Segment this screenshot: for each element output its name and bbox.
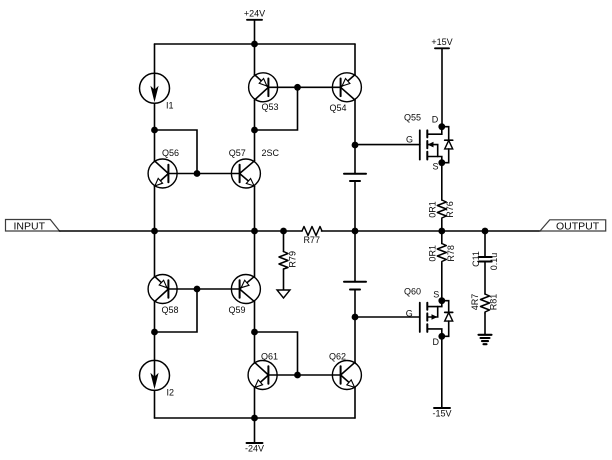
svg-text:INPUT: INPUT	[14, 220, 46, 232]
svg-text:0R1: 0R1	[428, 245, 438, 262]
wire bias loop lower-left	[155, 289, 198, 332]
svg-text:Q57: Q57	[229, 148, 246, 158]
resistor R77	[302, 227, 322, 245]
junction Q60 gate	[352, 314, 359, 321]
mosfet Q55	[404, 113, 453, 172]
svg-text:+15V: +15V	[431, 37, 452, 47]
current source I2	[140, 360, 175, 397]
svg-text:Q60: Q60	[404, 287, 421, 297]
wire Q53 collector-base loop	[255, 87, 298, 130]
transistor Q58	[148, 231, 178, 332]
svg-text:-24V: -24V	[245, 443, 264, 453]
wire I1 bottom lead	[154, 103, 156, 130]
transistor Q61	[248, 332, 278, 418]
transistor Q54	[330, 44, 362, 145]
battery V2 bias	[344, 231, 366, 363]
junction C11 top	[482, 228, 489, 235]
svg-text:Q56: Q56	[162, 148, 179, 158]
svg-text:R81: R81	[489, 294, 499, 311]
svg-text:+24V: +24V	[244, 8, 265, 18]
svg-text:R77: R77	[303, 235, 320, 245]
transistor Q56	[148, 130, 179, 231]
svg-text:Q55: Q55	[404, 113, 421, 123]
svg-text:G: G	[406, 134, 413, 144]
ground signal (under R79)	[277, 290, 290, 298]
wire Q60 gate net	[355, 316, 420, 318]
svg-text:R78: R78	[446, 245, 456, 262]
resistor R76	[428, 163, 456, 231]
wire base line Q61-Q62	[268, 374, 340, 376]
ground earth (under R81)	[479, 335, 492, 344]
junction Q55 drain node D	[438, 123, 445, 130]
junction Q58 collector / I2	[151, 329, 158, 336]
transistor Q59	[229, 231, 261, 332]
junction R77-R79	[280, 228, 287, 235]
current source I1	[140, 73, 174, 110]
wire base line Q56-Q57	[168, 173, 239, 175]
svg-text:I2: I2	[167, 388, 175, 398]
svg-text:D: D	[432, 337, 439, 347]
svg-text:R76: R76	[445, 201, 455, 218]
wire bias loop upper-left	[155, 130, 198, 174]
mosfet Q60	[404, 287, 453, 348]
power -24V	[245, 418, 264, 453]
svg-text:Q58: Q58	[162, 305, 179, 315]
junction bias chain / mid net	[352, 228, 359, 235]
junction Q54 collector / Q55 gate	[352, 142, 359, 149]
svg-text:C11: C11	[471, 251, 481, 267]
resistor R78	[428, 231, 456, 301]
junction Q55 source node S	[438, 159, 445, 166]
svg-text:I1: I1	[166, 101, 174, 111]
svg-text:0.1u: 0.1u	[489, 253, 499, 271]
svg-text:R79: R79	[288, 251, 298, 268]
svg-text:S: S	[432, 162, 438, 172]
wire Q55 gate net	[355, 144, 420, 146]
battery V1 bias	[344, 145, 366, 231]
power +15V	[431, 37, 452, 126]
svg-text:0R1: 0R1	[428, 201, 438, 218]
svg-text:OUTPUT: OUTPUT	[556, 220, 600, 232]
INPUT flag	[6, 220, 60, 233]
junction Q60 drain node D	[438, 333, 445, 340]
junction +24V rail	[251, 41, 258, 48]
wire I2 bottom lead	[154, 390, 156, 418]
wire base line Q58-Q59	[168, 288, 239, 290]
wire Q59-Q61 collector loop	[255, 332, 298, 375]
junction Q53-Q54 base node	[294, 84, 301, 91]
junction Q56-Q57 base node	[194, 170, 201, 177]
svg-text:-15V: -15V	[432, 408, 451, 418]
junction Q59 collector / Q61 collector	[251, 329, 258, 336]
transistor Q57	[229, 130, 280, 231]
svg-text:4R7: 4R7	[470, 294, 480, 311]
power +24V	[244, 8, 265, 44]
svg-text:Q53: Q53	[262, 102, 279, 112]
resistor R81	[470, 294, 499, 335]
svg-text:2SC: 2SC	[262, 148, 280, 158]
wire base line Q53-Q54	[268, 86, 340, 88]
OUTPUT flag	[540, 220, 606, 233]
capacitor C11	[471, 231, 499, 294]
wire I1 top lead	[154, 44, 156, 73]
wire main horizontal net	[60, 230, 541, 232]
junction Q57-Q59 emitters	[251, 228, 258, 235]
junction Q60 source node S	[438, 297, 445, 304]
junction input net / Q56-Q58 emitters	[151, 228, 158, 235]
transistor Q53	[249, 44, 279, 130]
resistor R79	[279, 231, 298, 290]
svg-text:D: D	[432, 114, 439, 124]
junction Q61-Q62 base node	[294, 372, 301, 379]
junction Q58-Q59 base node	[194, 286, 201, 293]
transistor Q62	[329, 352, 361, 419]
svg-text:S: S	[433, 289, 439, 299]
junction I1 / Q56 collector	[151, 127, 158, 134]
junction -24V rail	[251, 415, 258, 422]
svg-text:Q61: Q61	[261, 352, 278, 362]
junction Q53 collector / Q57 collector	[251, 127, 258, 134]
svg-text:G: G	[406, 309, 413, 319]
wire bottom rail	[155, 417, 356, 419]
svg-text:Q62: Q62	[329, 352, 346, 362]
wire top rail	[155, 43, 356, 45]
svg-text:Q59: Q59	[229, 305, 246, 315]
wire I2 top lead	[154, 332, 156, 360]
power -15V	[432, 336, 451, 418]
junction R76-R78 output net	[438, 228, 445, 235]
svg-text:Q54: Q54	[330, 103, 347, 113]
